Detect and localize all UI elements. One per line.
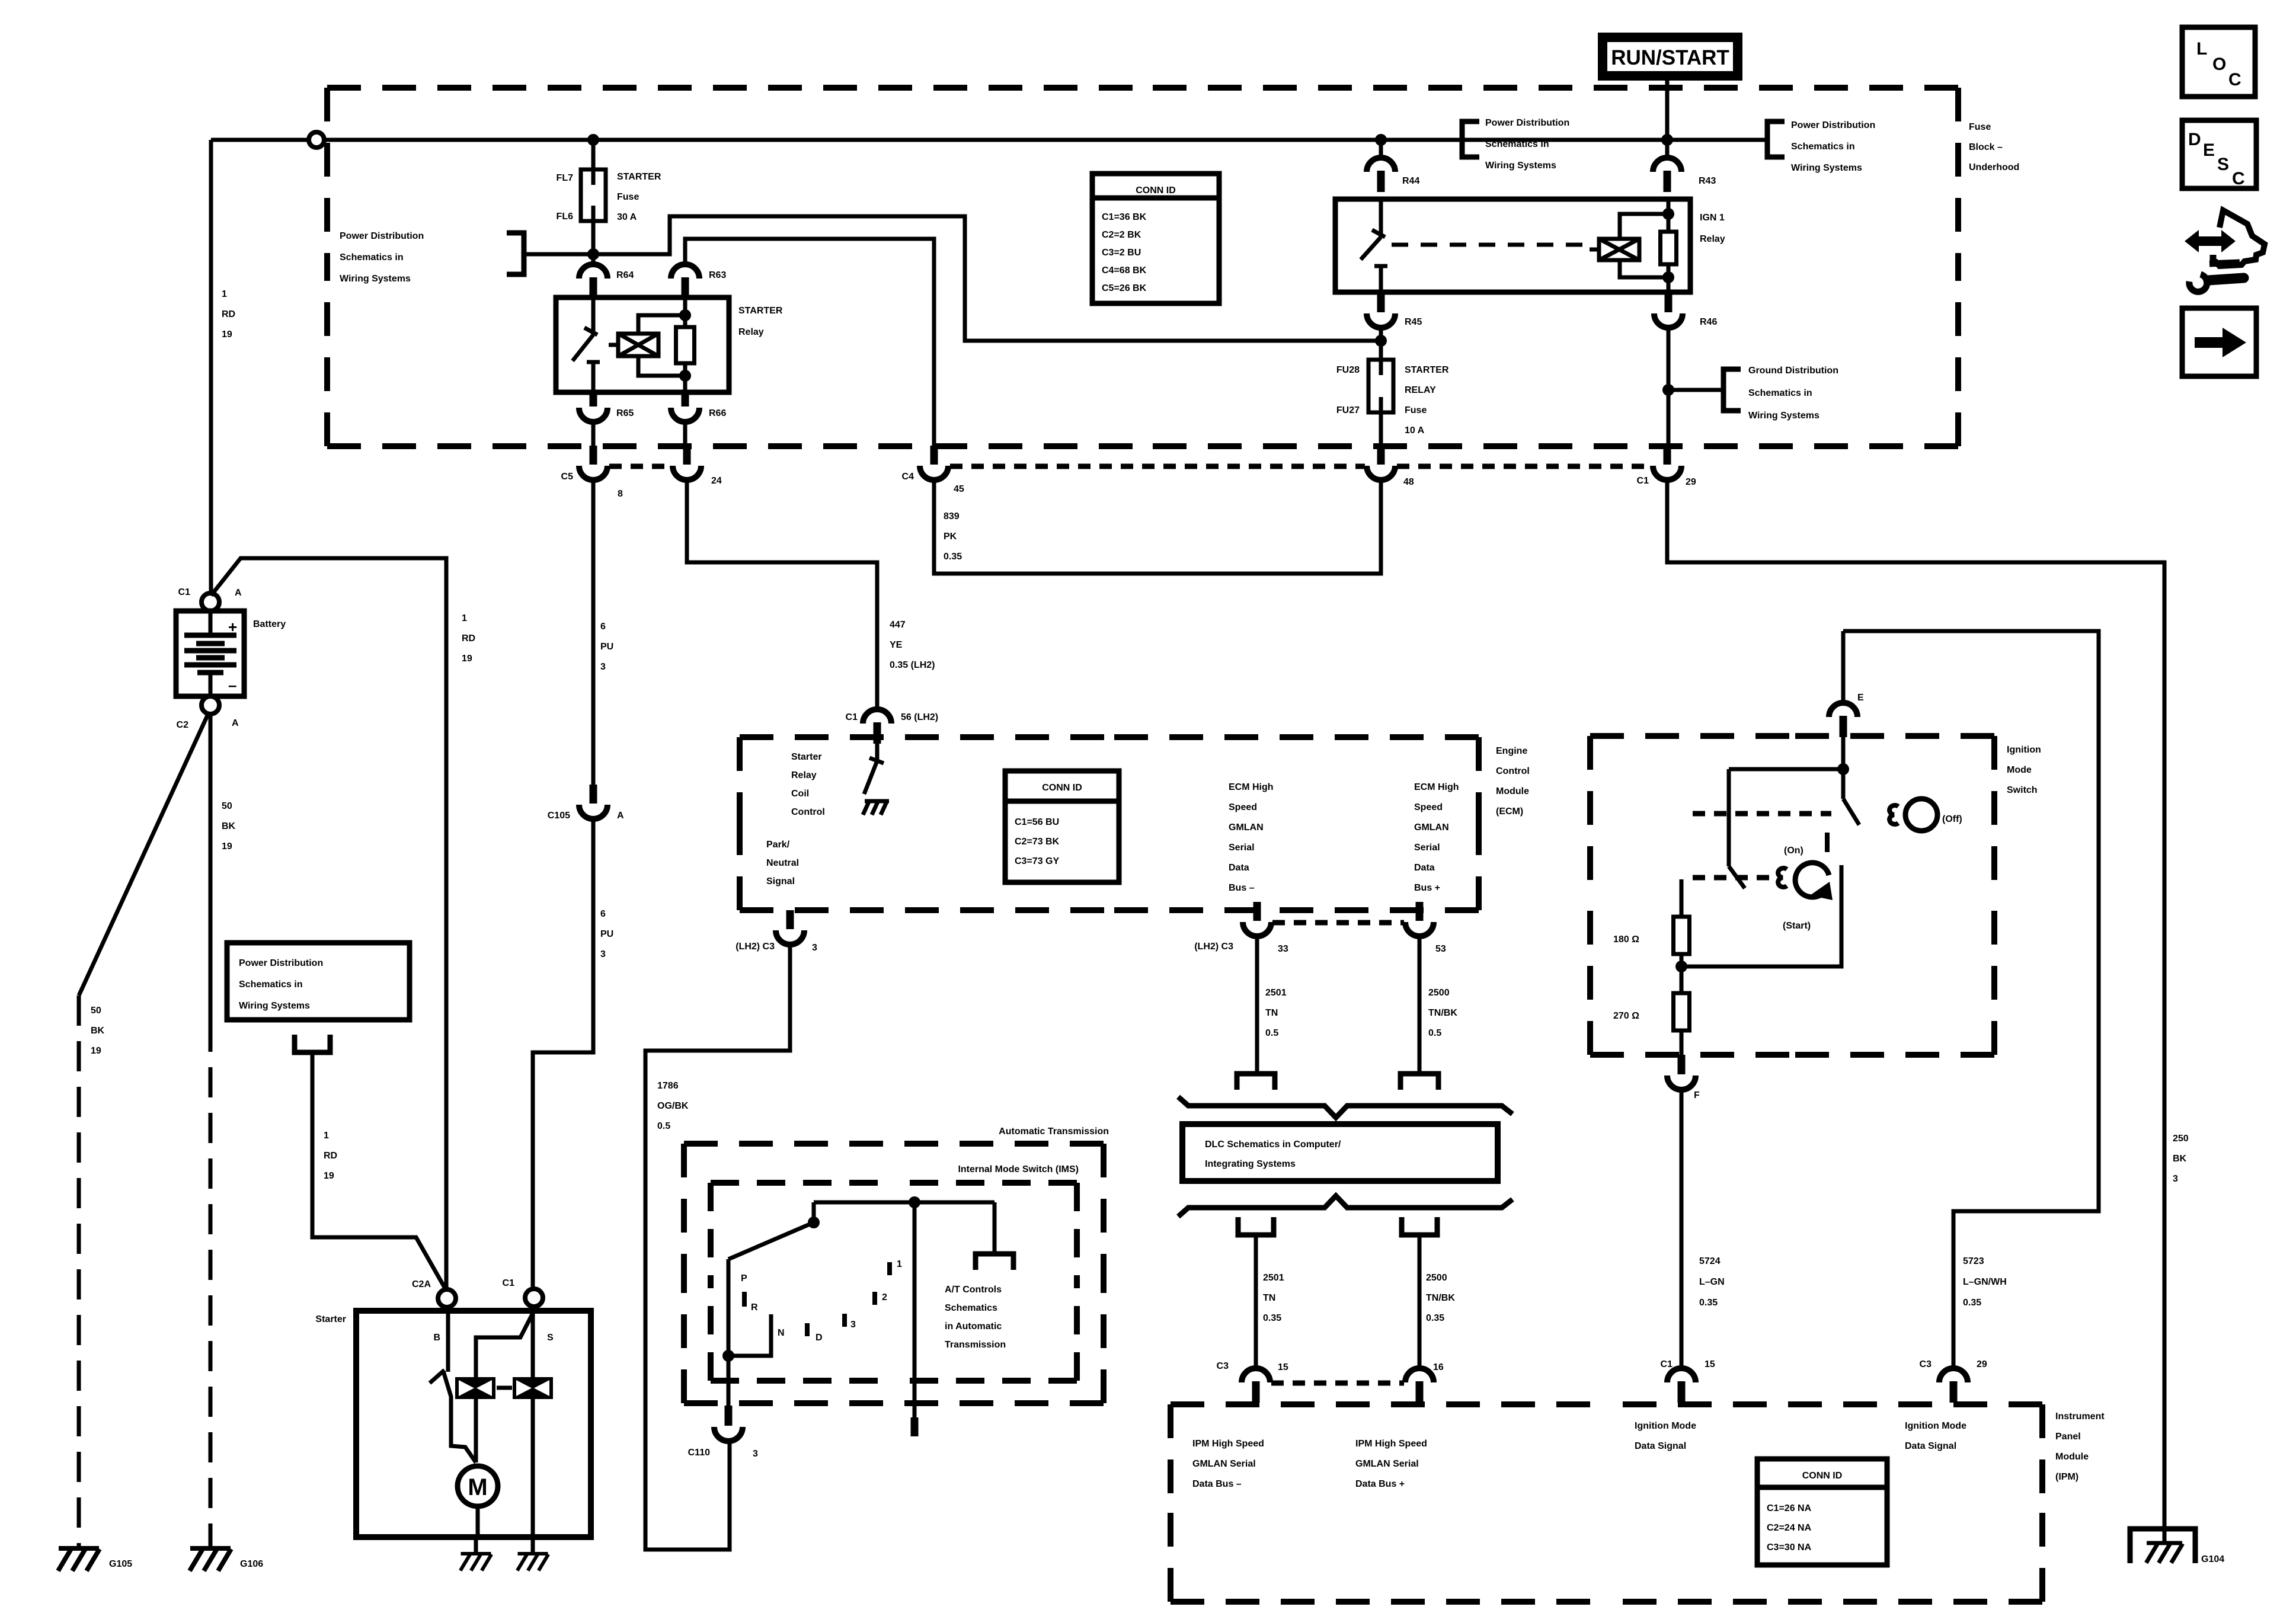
ECM dashed box bbox=[740, 737, 1479, 910]
coil solenoid pull-in winding bbox=[455, 1377, 495, 1399]
svg-text:R64: R64 bbox=[616, 270, 634, 280]
svg-text:C5=26 BK: C5=26 BK bbox=[1102, 283, 1147, 293]
svg-text:B: B bbox=[433, 1333, 440, 1343]
tap to A/T controls bbox=[976, 1254, 1013, 1270]
svg-text:PK: PK bbox=[944, 532, 957, 542]
wire R63 to C4-45 bbox=[685, 239, 934, 446]
junction FL6 output bbox=[587, 248, 599, 260]
svg-text:16: 16 bbox=[1433, 1362, 1444, 1372]
svg-text:50: 50 bbox=[222, 801, 232, 811]
svg-text:Engine: Engine bbox=[1496, 746, 1527, 756]
connector pin 16 bbox=[1405, 1368, 1434, 1403]
svg-text:PU: PU bbox=[600, 642, 613, 652]
svg-text:Internal Mode Switch (IMS): Internal Mode Switch (IMS) bbox=[958, 1164, 1079, 1174]
svg-text:Fuse: Fuse bbox=[1405, 405, 1427, 415]
automatic transmission dashed box bbox=[684, 1144, 1104, 1403]
svg-text:IPM High Speed: IPM High Speed bbox=[1192, 1439, 1264, 1449]
svg-text:in Automatic: in Automatic bbox=[945, 1321, 1002, 1331]
svg-text:C2=2 BK: C2=2 BK bbox=[1102, 230, 1141, 240]
resistor IGN1 relay bbox=[1661, 232, 1677, 264]
svg-text:Serial: Serial bbox=[1414, 843, 1440, 853]
svg-text:Schematics: Schematics bbox=[945, 1303, 997, 1313]
starter box bbox=[356, 1311, 591, 1537]
icon right arrow bbox=[2195, 328, 2246, 357]
wire bus to FL7 fuse bbox=[591, 140, 596, 169]
starter terminal C1 circle bbox=[525, 1289, 543, 1307]
wire 5723 L-GN/WH bbox=[1843, 631, 2099, 1368]
svg-text:3: 3 bbox=[850, 1320, 856, 1330]
svg-text:C1: C1 bbox=[846, 712, 858, 722]
ignition mode switch dashed box bbox=[1590, 736, 1994, 1055]
wire junction to ground callout bbox=[1668, 388, 1723, 392]
svg-text:C3=2 BU: C3=2 BU bbox=[1102, 248, 1141, 258]
icon LOC box bbox=[2182, 27, 2255, 97]
wire start contact to divider bbox=[1681, 865, 1841, 966]
icon schematic pointer arrows bbox=[2185, 230, 2236, 252]
svg-text:Fuse: Fuse bbox=[617, 192, 639, 202]
svg-text:C1=56 BU: C1=56 BU bbox=[1015, 817, 1059, 827]
svg-text:6: 6 bbox=[600, 909, 606, 919]
resistor 270 ohm bbox=[1674, 993, 1690, 1030]
tap DLC to IPM bus minus bbox=[1238, 1217, 1274, 1235]
svg-text:2501: 2501 bbox=[1265, 988, 1287, 998]
svg-text:RD: RD bbox=[324, 1151, 337, 1161]
wire coil top loop bbox=[638, 315, 685, 334]
connector LH2 C3 pin 3 bbox=[776, 910, 804, 945]
connector body dashes C4-48 bbox=[950, 464, 1365, 469]
svg-text:Switch: Switch bbox=[2007, 785, 2038, 795]
wire battery positive drop bbox=[209, 140, 213, 593]
svg-text:Schematics in: Schematics in bbox=[1485, 139, 1549, 149]
svg-text:TN: TN bbox=[1265, 1008, 1278, 1018]
DLC schematics box bbox=[1182, 1124, 1498, 1181]
svg-text:Power Distribution: Power Distribution bbox=[239, 958, 323, 968]
wire 270 ohm to F bbox=[1680, 1030, 1684, 1056]
svg-text:R46: R46 bbox=[1700, 317, 1717, 327]
svg-text:FL6: FL6 bbox=[557, 212, 574, 222]
svg-text:0.5: 0.5 bbox=[1428, 1028, 1441, 1038]
connector C1 pin 56 bbox=[863, 709, 891, 744]
svg-text:Automatic Transmission: Automatic Transmission bbox=[999, 1126, 1109, 1137]
svg-text:56 (LH2): 56 (LH2) bbox=[901, 712, 938, 722]
svg-text:50: 50 bbox=[91, 1006, 101, 1016]
wire IMS pivot stub bbox=[812, 1202, 816, 1222]
ground starter motor bbox=[461, 1554, 492, 1571]
mechanical link dashes IGN1 bbox=[1392, 243, 1588, 247]
svg-text:TN: TN bbox=[1263, 1293, 1275, 1303]
starter terminal C2A circle bbox=[438, 1289, 456, 1307]
junction IMS pivot bbox=[808, 1217, 820, 1228]
svg-text:19: 19 bbox=[91, 1046, 101, 1056]
svg-text:Control: Control bbox=[791, 807, 825, 817]
switch blade coil control driver bbox=[864, 761, 877, 794]
wire pull-in coil to motor bbox=[474, 1399, 478, 1462]
wire IGN1 coil bottom bbox=[1667, 264, 1671, 292]
svg-text:24: 24 bbox=[711, 476, 722, 486]
tap DLC to IPM bus plus bbox=[1402, 1217, 1437, 1235]
tick position D bbox=[805, 1323, 810, 1336]
icon vehicle outline bbox=[2215, 210, 2265, 266]
svg-text:C110: C110 bbox=[688, 1448, 710, 1458]
wire 1786 OG/BK park neutral signal bbox=[645, 945, 790, 1550]
svg-text:C4: C4 bbox=[902, 472, 914, 482]
svg-text:Data: Data bbox=[1229, 863, 1249, 873]
power distribution schematics box bbox=[227, 943, 410, 1020]
switch blade IMS bbox=[728, 1222, 814, 1259]
svg-text:(ECM): (ECM) bbox=[1496, 806, 1523, 817]
junction resistor divider bbox=[1675, 961, 1687, 972]
svg-text:Ignition Mode: Ignition Mode bbox=[1905, 1421, 1966, 1431]
connector pin 48 bbox=[1367, 446, 1395, 480]
callout bracket power distribution 1 bbox=[1462, 121, 1479, 157]
table IPM CONN ID bbox=[1757, 1459, 1887, 1565]
svg-text:Schematics in: Schematics in bbox=[340, 252, 404, 263]
wire 1 RD to starter C2A bbox=[312, 1052, 446, 1289]
svg-text:3: 3 bbox=[753, 1449, 758, 1459]
dashed detent line Off bbox=[1693, 811, 1831, 817]
svg-text:O: O bbox=[2212, 55, 2226, 74]
svg-text:C3=30 NA: C3=30 NA bbox=[1767, 1542, 1812, 1553]
tap bus minus to DLC bbox=[1237, 1074, 1275, 1090]
connector C5 pin 8 bbox=[579, 446, 607, 480]
svg-text:2500: 2500 bbox=[1428, 988, 1450, 998]
switch contact IGN1 relay bbox=[1374, 264, 1387, 268]
svg-text:BK: BK bbox=[91, 1026, 105, 1036]
connector C110 pin 3 bbox=[714, 1427, 743, 1441]
svg-text:Mode: Mode bbox=[2007, 765, 2032, 775]
wire IMS wiper to C110 bbox=[727, 1259, 731, 1406]
svg-text:Wiring Systems: Wiring Systems bbox=[1791, 163, 1862, 173]
svg-text:ECM High: ECM High bbox=[1414, 782, 1459, 792]
switch blade starter relay bbox=[573, 335, 593, 361]
wire R45 to FU28 bbox=[1379, 328, 1383, 360]
coil starter relay bbox=[609, 334, 658, 356]
contact circle Off bbox=[1905, 799, 1937, 831]
svg-text:30 A: 30 A bbox=[617, 212, 637, 222]
wire Off pole drop bbox=[1841, 769, 1846, 799]
wire R66 to 24 bbox=[683, 422, 687, 446]
wire 2500 TN/BK upper bbox=[1418, 936, 1422, 1074]
junction ground distribution tap bbox=[1662, 384, 1674, 396]
connector C1 pin 29 bbox=[1653, 446, 1681, 480]
svg-text:A: A bbox=[617, 811, 624, 821]
internal mode switch dashed box bbox=[711, 1183, 1077, 1381]
svg-text:YE: YE bbox=[890, 640, 903, 650]
svg-text:Wiring Systems: Wiring Systems bbox=[239, 1001, 310, 1011]
wire E connector up bbox=[1841, 631, 1846, 703]
svg-text:Relay: Relay bbox=[738, 327, 764, 337]
callout bracket power distribution left bbox=[507, 233, 524, 274]
svg-text:BK: BK bbox=[2173, 1154, 2187, 1164]
svg-text:(Start): (Start) bbox=[1783, 921, 1811, 931]
svg-text:Wiring Systems: Wiring Systems bbox=[1485, 161, 1556, 171]
svg-text:0.5: 0.5 bbox=[657, 1121, 670, 1131]
wire B terminal drop bbox=[446, 1307, 450, 1372]
svg-text:Schematics in: Schematics in bbox=[1748, 388, 1812, 398]
svg-text:3: 3 bbox=[2173, 1174, 2178, 1184]
svg-text:G105: G105 bbox=[109, 1559, 132, 1569]
svg-text:(IPM): (IPM) bbox=[2055, 1472, 2078, 1482]
svg-text:D: D bbox=[816, 1333, 823, 1343]
wire starter switch blade to motor bbox=[443, 1371, 476, 1462]
svg-text:Power Distribution: Power Distribution bbox=[340, 231, 424, 241]
wire 6 PU to C105 bbox=[591, 480, 596, 785]
junction IMS N contact bbox=[722, 1350, 734, 1362]
svg-text:R63: R63 bbox=[709, 270, 726, 280]
svg-text:10 A: 10 A bbox=[1405, 425, 1425, 436]
svg-text:C4=68 BK: C4=68 BK bbox=[1102, 265, 1147, 276]
connector body dashes 48-C1 bbox=[1397, 464, 1651, 469]
svg-text:FL7: FL7 bbox=[557, 173, 574, 183]
svg-text:0.35: 0.35 bbox=[1426, 1313, 1444, 1323]
svg-text:R44: R44 bbox=[1402, 176, 1419, 186]
svg-text:Control: Control bbox=[1496, 766, 1530, 776]
svg-text:Schematics in: Schematics in bbox=[1791, 142, 1855, 152]
svg-text:Panel: Panel bbox=[2055, 1432, 2081, 1442]
svg-text:250: 250 bbox=[2173, 1134, 2189, 1144]
svg-text:19: 19 bbox=[324, 1171, 334, 1181]
contact hook Off bbox=[1889, 805, 1898, 824]
svg-text:R: R bbox=[751, 1302, 758, 1313]
wire solenoid switch blade bbox=[476, 1314, 532, 1377]
svg-text:G104: G104 bbox=[2201, 1554, 2224, 1564]
svg-text:DLC Schematics in Computer/: DLC Schematics in Computer/ bbox=[1205, 1140, 1341, 1150]
svg-text:CONN ID: CONN ID bbox=[1042, 783, 1082, 793]
svg-text:R43: R43 bbox=[1699, 176, 1716, 186]
wire 50 BK dashed to G106 bbox=[209, 1022, 213, 1547]
battery box bbox=[176, 611, 244, 696]
junction R44 bus bbox=[1375, 134, 1387, 146]
stub IMS output bbox=[911, 1417, 919, 1436]
svg-text:2500: 2500 bbox=[1426, 1273, 1447, 1283]
splice terminal circle on bus bbox=[309, 132, 324, 148]
svg-text:N: N bbox=[778, 1328, 785, 1338]
svg-text:Serial: Serial bbox=[1229, 843, 1255, 853]
wire IMS bus bbox=[814, 1201, 994, 1205]
svg-text:GMLAN Serial: GMLAN Serial bbox=[1355, 1459, 1419, 1469]
wire FU27 to 48 bbox=[1379, 412, 1383, 446]
svg-text:2: 2 bbox=[882, 1292, 887, 1302]
wire relay switch common bbox=[591, 297, 596, 335]
stub F bbox=[1678, 1055, 1686, 1074]
svg-text:0.35: 0.35 bbox=[1263, 1313, 1281, 1323]
junction RUN/START bus bbox=[1661, 134, 1673, 146]
switch blade starter B contact bbox=[430, 1370, 445, 1383]
wire coil control drop bbox=[875, 737, 880, 761]
ground G105 bbox=[58, 1548, 100, 1571]
wire R46 to C1-29 bbox=[1667, 328, 1671, 446]
wire relay coil bottom bbox=[683, 363, 687, 392]
connector C4 pin 45 bbox=[920, 446, 948, 480]
svg-text:Power Distribution: Power Distribution bbox=[1791, 120, 1875, 130]
svg-text:Data Signal: Data Signal bbox=[1635, 1441, 1686, 1451]
svg-text:R45: R45 bbox=[1405, 317, 1422, 327]
junction IMS output bbox=[909, 1196, 920, 1208]
wire hold-in coil to case bbox=[531, 1399, 535, 1537]
svg-text:Bus +: Bus + bbox=[1414, 883, 1440, 893]
wire to 180 ohm bbox=[1680, 879, 1684, 917]
battery terminal C1 circle bbox=[202, 593, 219, 611]
mechanical link dashes solenoid bbox=[497, 1386, 512, 1390]
svg-text:CONN ID: CONN ID bbox=[1136, 185, 1176, 196]
ground coil control internal bbox=[863, 801, 889, 815]
svg-text:45: 45 bbox=[954, 484, 964, 494]
ground G104 bbox=[2146, 1543, 2183, 1563]
motor M bbox=[458, 1466, 498, 1506]
resistor starter relay bbox=[676, 327, 695, 363]
svg-text:2501: 2501 bbox=[1263, 1273, 1284, 1283]
wire bracket to junction bbox=[524, 252, 593, 257]
wire 50 BK to G106 solid bbox=[209, 714, 213, 1022]
svg-text:Data: Data bbox=[1414, 863, 1435, 873]
svg-text:FU27: FU27 bbox=[1336, 405, 1360, 415]
svg-text:Signal: Signal bbox=[766, 876, 795, 886]
wire IMS output down bbox=[913, 1202, 917, 1417]
battery terminal C2 circle bbox=[202, 696, 219, 714]
svg-text:Park/: Park/ bbox=[766, 840, 790, 850]
svg-text:Starter: Starter bbox=[791, 752, 822, 762]
svg-text:3: 3 bbox=[600, 949, 606, 959]
svg-text:180 Ω: 180 Ω bbox=[1613, 934, 1639, 945]
svg-text:Integrating Systems: Integrating Systems bbox=[1205, 1159, 1296, 1169]
svg-text:PU: PU bbox=[600, 929, 613, 939]
svg-text:C3=73 GY: C3=73 GY bbox=[1015, 856, 1059, 866]
svg-text:270 Ω: 270 Ω bbox=[1613, 1011, 1639, 1021]
relay IGN 1 Relay box bbox=[1335, 199, 1690, 292]
connector F bbox=[1667, 1076, 1696, 1090]
svg-text:C2: C2 bbox=[177, 720, 189, 730]
wire 2501 TN upper bbox=[1255, 936, 1259, 1074]
icon wrench bbox=[2189, 274, 2244, 292]
svg-text:Wiring Systems: Wiring Systems bbox=[340, 274, 411, 284]
svg-text:Ignition: Ignition bbox=[2007, 745, 2041, 755]
svg-text:Module: Module bbox=[1496, 786, 1529, 796]
svg-text:Wiring Systems: Wiring Systems bbox=[1748, 411, 1819, 421]
svg-text:1: 1 bbox=[897, 1259, 902, 1269]
svg-text:Neutral: Neutral bbox=[766, 858, 799, 868]
svg-text:5724: 5724 bbox=[1699, 1256, 1721, 1266]
tick position 1 bbox=[887, 1262, 892, 1275]
svg-text:S: S bbox=[2217, 155, 2229, 174]
wire E into switch bbox=[1841, 736, 1846, 769]
wire IGN1 coil top bbox=[1667, 199, 1671, 232]
svg-text:5723: 5723 bbox=[1963, 1256, 1984, 1266]
stub C110 into transmission bbox=[725, 1406, 733, 1426]
wire 839 PK 45-to-48 loop bbox=[934, 480, 1381, 574]
svg-text:Data Bus +: Data Bus + bbox=[1355, 1479, 1405, 1489]
svg-text:C1=36 BK: C1=36 BK bbox=[1102, 212, 1147, 222]
svg-text:C: C bbox=[2232, 169, 2245, 188]
wire coil bottom loop bbox=[638, 356, 685, 376]
svg-text:C1: C1 bbox=[178, 587, 191, 597]
RUN/START label box bbox=[1598, 33, 1742, 81]
icon DESC box bbox=[2182, 120, 2256, 188]
table ECM CONN ID bbox=[1005, 771, 1119, 882]
wire 447 YE starter relay coil control bbox=[687, 480, 877, 709]
svg-text:(Off): (Off) bbox=[1942, 814, 1962, 824]
connector body dashes C5-24 bbox=[609, 464, 671, 469]
wire FL6 to R64 bbox=[591, 221, 596, 264]
svg-text:(LH2) C3: (LH2) C3 bbox=[1194, 942, 1233, 952]
svg-text:FU28: FU28 bbox=[1336, 365, 1360, 375]
wire 1 RD battery to starter B bbox=[211, 558, 446, 1288]
wire solenoid ground lead bbox=[531, 1537, 535, 1553]
svg-text:3: 3 bbox=[600, 662, 606, 672]
svg-text:CONN ID: CONN ID bbox=[1802, 1471, 1843, 1481]
wire to A/T controls tap bbox=[993, 1202, 997, 1254]
svg-text:GMLAN: GMLAN bbox=[1414, 822, 1449, 833]
svg-text:C1: C1 bbox=[1661, 1359, 1673, 1369]
svg-text:29: 29 bbox=[1977, 1359, 1987, 1369]
svg-text:0.35: 0.35 bbox=[1963, 1298, 1981, 1308]
svg-text:33: 33 bbox=[1278, 944, 1288, 954]
svg-text:F: F bbox=[1694, 1090, 1700, 1100]
svg-text:29: 29 bbox=[1686, 477, 1696, 487]
contact circular arrow Start bbox=[1795, 863, 1829, 897]
connector R44 bbox=[1367, 158, 1395, 192]
wire bus to R44 bbox=[1379, 140, 1383, 158]
svg-text:C2=24 NA: C2=24 NA bbox=[1767, 1523, 1812, 1533]
svg-text:C105: C105 bbox=[548, 811, 570, 821]
wire 2501 TN lower bbox=[1254, 1235, 1258, 1368]
wire RUN/START to R43 bbox=[1665, 81, 1670, 158]
svg-text:1786: 1786 bbox=[657, 1081, 679, 1091]
wire 5724 L-GN bbox=[1680, 1090, 1684, 1368]
svg-text:E: E bbox=[2203, 140, 2215, 160]
svg-text:L–GN/WH: L–GN/WH bbox=[1963, 1277, 2007, 1287]
svg-text:839: 839 bbox=[944, 511, 960, 521]
svg-text:E: E bbox=[1857, 693, 1864, 703]
svg-text:C: C bbox=[2228, 70, 2241, 89]
contact hook Start bbox=[1778, 868, 1787, 887]
svg-text:C3: C3 bbox=[1920, 1359, 1932, 1369]
svg-text:+: + bbox=[228, 618, 237, 636]
svg-text:STARTER: STARTER bbox=[617, 172, 661, 182]
svg-text:Bus –: Bus – bbox=[1229, 883, 1255, 893]
svg-text:0.35: 0.35 bbox=[944, 552, 962, 562]
svg-text:0.35: 0.35 bbox=[1699, 1298, 1718, 1308]
svg-text:8: 8 bbox=[618, 489, 623, 499]
brace upper DLC bbox=[1178, 1097, 1512, 1118]
svg-text:STARTER: STARTER bbox=[738, 306, 783, 316]
connector body dashes 33-53 bbox=[1272, 920, 1404, 926]
wire to On/Start pole bbox=[1729, 767, 1843, 772]
wire IGN1 coil bottom loop bbox=[1620, 260, 1668, 277]
wire 250 BK to G104 bbox=[1667, 480, 2164, 1542]
connector R45 bbox=[1367, 295, 1395, 328]
switch blade start pole bbox=[1729, 866, 1745, 888]
svg-text:Relay: Relay bbox=[1700, 234, 1725, 244]
svg-text:R65: R65 bbox=[616, 408, 634, 418]
switch blade IGN1 relay bbox=[1361, 237, 1381, 260]
svg-text:Power Distribution: Power Distribution bbox=[1485, 118, 1569, 128]
relay STARTER Relay box bbox=[556, 297, 729, 392]
junction bus FL7 tap bbox=[587, 134, 599, 146]
svg-text:BK: BK bbox=[222, 821, 236, 831]
connector R64 bbox=[579, 264, 607, 299]
wire 50 BK diagonal to G105 bbox=[79, 713, 209, 996]
svg-text:Ground Distribution: Ground Distribution bbox=[1748, 366, 1838, 376]
svg-text:Relay: Relay bbox=[791, 770, 817, 780]
svg-text:TN/BK: TN/BK bbox=[1426, 1293, 1455, 1303]
dashed detent line Start bbox=[1693, 875, 1776, 881]
svg-text:C1: C1 bbox=[503, 1278, 515, 1288]
svg-text:GMLAN Serial: GMLAN Serial bbox=[1192, 1459, 1256, 1469]
svg-text:Instrument: Instrument bbox=[2055, 1411, 2105, 1422]
wire motor to case bbox=[476, 1506, 480, 1537]
wire 6 PU to starter S bbox=[533, 819, 593, 1287]
svg-text:(LH2) C3: (LH2) C3 bbox=[736, 942, 775, 952]
